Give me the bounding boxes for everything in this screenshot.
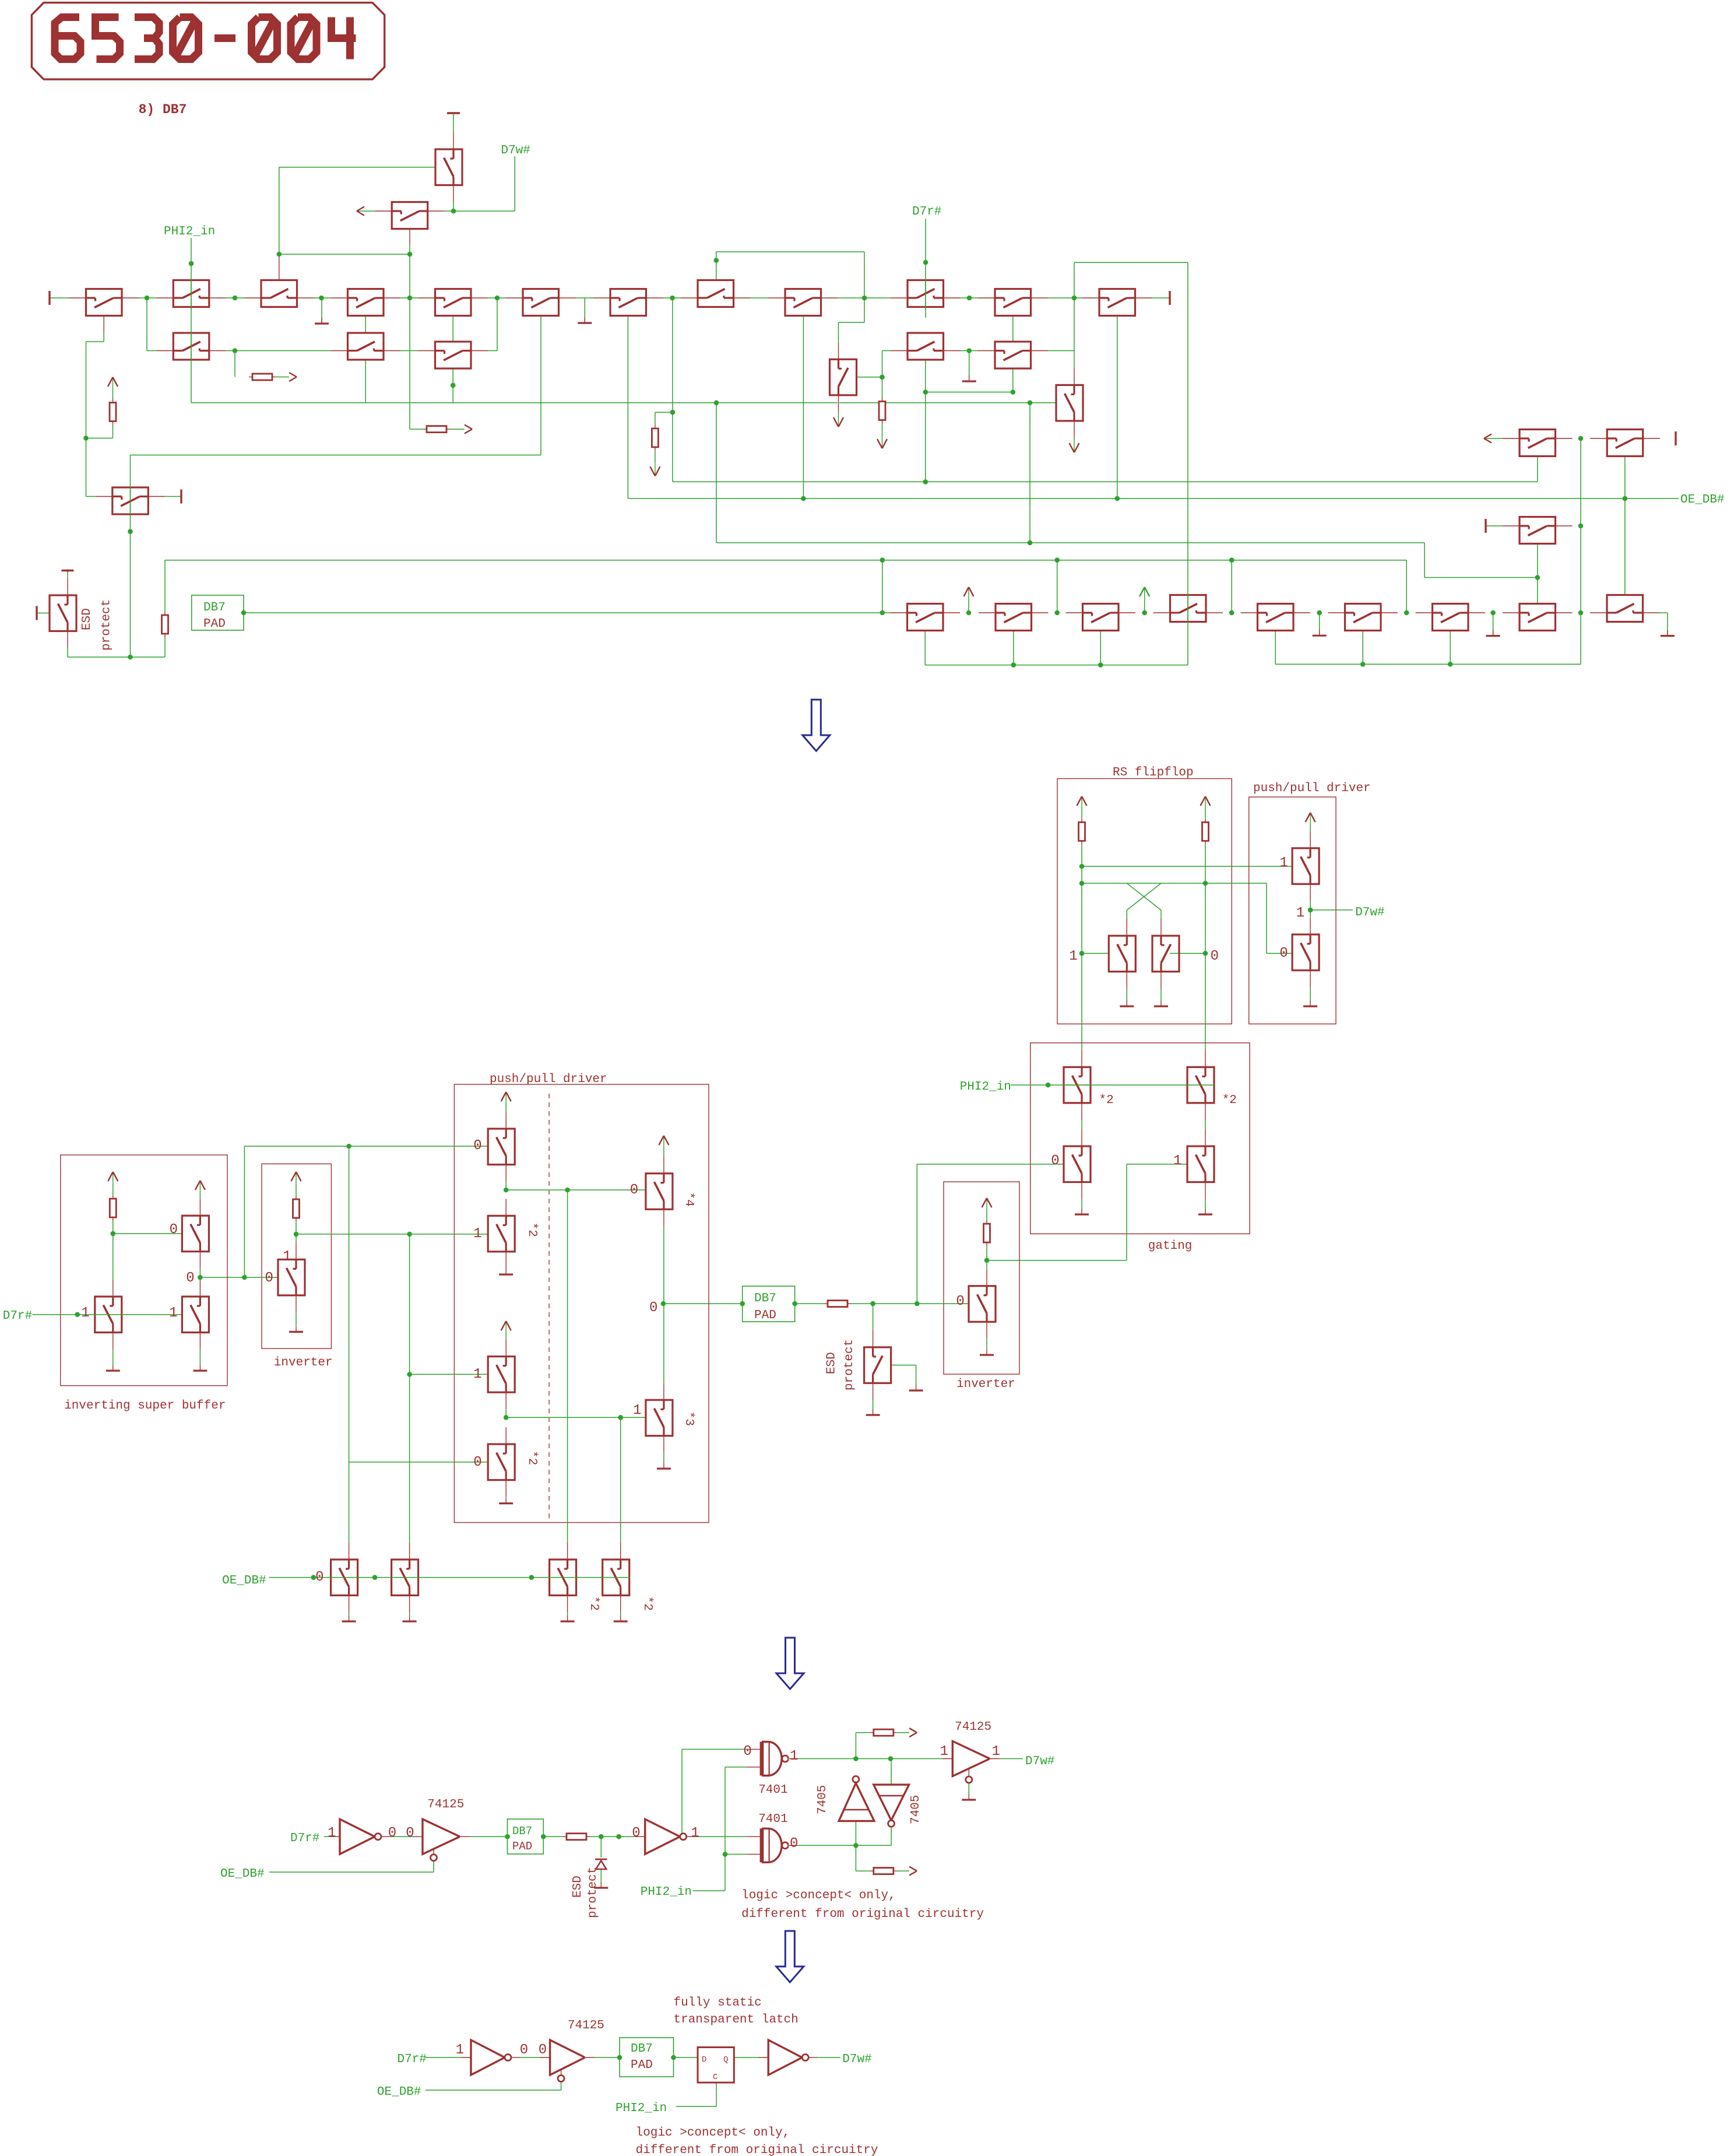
svg-text:74125: 74125	[955, 1720, 991, 1734]
svg-text:0: 0	[632, 1825, 640, 1841]
svg-text:transparent latch: transparent latch	[674, 2013, 799, 2027]
svg-text:D7w#: D7w#	[501, 144, 530, 157]
svg-text:D7r#: D7r#	[398, 2053, 427, 2066]
svg-text:1: 1	[81, 1305, 89, 1321]
svg-text:7401: 7401	[758, 1783, 787, 1797]
svg-text:0: 0	[388, 1825, 396, 1841]
svg-text:1: 1	[790, 1748, 798, 1764]
svg-text:0: 0	[1279, 946, 1288, 961]
svg-text:DB7: DB7	[754, 1292, 776, 1305]
svg-text:*2: *2	[641, 1596, 654, 1611]
svg-text:0: 0	[743, 1744, 751, 1760]
svg-text:inverter: inverter	[956, 1378, 1015, 1391]
svg-text:*2: *2	[587, 1596, 600, 1611]
svg-text:1: 1	[1069, 949, 1077, 964]
svg-text:OE_DB#: OE_DB#	[377, 2085, 421, 2099]
svg-text:push/pull driver: push/pull driver	[490, 1073, 607, 1086]
svg-text:PHI2_in: PHI2_in	[615, 2102, 667, 2115]
svg-text:0: 0	[1051, 1153, 1059, 1169]
svg-text:*2: *2	[525, 1451, 539, 1465]
svg-text:different from original circui: different from original circuitry	[741, 1908, 984, 1921]
svg-text:Q: Q	[723, 2055, 728, 2064]
svg-text:D7r#: D7r#	[912, 205, 941, 219]
svg-text:PAD: PAD	[512, 1840, 532, 1853]
svg-text:1: 1	[473, 1226, 481, 1242]
svg-text:1: 1	[1296, 905, 1304, 921]
svg-text:8) DB7: 8) DB7	[139, 102, 187, 117]
svg-text:C: C	[713, 2073, 717, 2082]
svg-text:PAD: PAD	[203, 617, 226, 631]
svg-text:0: 0	[956, 1294, 964, 1309]
svg-text:1: 1	[473, 1367, 481, 1382]
svg-text:*2: *2	[525, 1223, 539, 1237]
svg-text:PAD: PAD	[631, 2059, 653, 2072]
svg-text:0: 0	[520, 2042, 528, 2058]
svg-text:PHI2_in: PHI2_in	[164, 225, 215, 238]
svg-text:0: 0	[1211, 949, 1219, 964]
svg-text:7405: 7405	[909, 1795, 923, 1824]
svg-text:ESD: ESD	[571, 1876, 585, 1898]
svg-text:OE_DB#: OE_DB#	[1680, 493, 1725, 507]
svg-text:DB7: DB7	[512, 1825, 532, 1838]
svg-text:74125: 74125	[568, 2019, 604, 2032]
svg-text:0: 0	[473, 1455, 481, 1470]
svg-text:*2: *2	[1222, 1094, 1237, 1107]
svg-text:D7r#: D7r#	[3, 1309, 32, 1323]
svg-text:0: 0	[630, 1182, 638, 1198]
svg-text:0: 0	[186, 1270, 194, 1286]
svg-text:PAD: PAD	[754, 1309, 776, 1322]
svg-text:1: 1	[1173, 1153, 1181, 1169]
svg-text:0: 0	[473, 1138, 481, 1154]
svg-text:0: 0	[265, 1270, 273, 1286]
svg-text:DB7: DB7	[631, 2042, 653, 2056]
svg-text:1: 1	[328, 1825, 336, 1841]
svg-text:inverter: inverter	[274, 1356, 333, 1370]
svg-text:D7w#: D7w#	[1025, 1755, 1054, 1768]
svg-text:*3: *3	[682, 1411, 695, 1426]
svg-text:0: 0	[315, 1569, 323, 1585]
svg-text:1: 1	[283, 1249, 291, 1265]
svg-text:inverting super buffer: inverting super buffer	[64, 1399, 226, 1413]
svg-text:protect: protect	[843, 1339, 856, 1390]
svg-text:0: 0	[406, 1825, 414, 1841]
svg-text:protect: protect	[586, 1867, 600, 1918]
svg-text:ESD: ESD	[825, 1352, 839, 1374]
svg-text:7401: 7401	[758, 1813, 787, 1826]
svg-text:DB7: DB7	[203, 601, 226, 615]
svg-text:gating: gating	[1148, 1239, 1193, 1253]
svg-text:0: 0	[649, 1300, 657, 1316]
svg-text:0: 0	[790, 1836, 798, 1852]
svg-text:*4: *4	[682, 1192, 695, 1207]
svg-text:PHI2_in: PHI2_in	[641, 1885, 692, 1899]
svg-text:different from original circui: different from original circuitry	[636, 2144, 878, 2156]
svg-text:7405: 7405	[816, 1785, 829, 1814]
svg-text:1: 1	[169, 1305, 177, 1321]
svg-text:logic >concept< only,: logic >concept< only,	[741, 1889, 896, 1902]
svg-text:1: 1	[992, 1744, 1000, 1760]
svg-text:0: 0	[539, 2042, 547, 2058]
svg-text:RS flipflop: RS flipflop	[1113, 766, 1194, 779]
svg-text:1: 1	[456, 2042, 464, 2058]
svg-text:D7w#: D7w#	[1355, 906, 1384, 919]
svg-text:OE_DB#: OE_DB#	[222, 1574, 266, 1588]
svg-text:protect: protect	[100, 599, 114, 651]
svg-text:fully static: fully static	[674, 1996, 762, 2010]
svg-text:0: 0	[170, 1222, 178, 1238]
svg-text:logic >concept< only,: logic >concept< only,	[636, 2126, 790, 2140]
svg-text:ESD: ESD	[80, 608, 94, 630]
svg-text:74125: 74125	[427, 1798, 464, 1811]
svg-text:1: 1	[691, 1825, 699, 1841]
svg-text:push/pull driver: push/pull driver	[1253, 782, 1371, 795]
svg-text:1: 1	[1279, 855, 1288, 871]
svg-text:1: 1	[940, 1744, 948, 1760]
svg-text:D: D	[702, 2055, 706, 2064]
svg-text:OE_DB#: OE_DB#	[220, 1867, 265, 1881]
svg-text:*2: *2	[1099, 1094, 1114, 1107]
svg-text:D7r#: D7r#	[290, 1832, 319, 1845]
svg-text:D7w#: D7w#	[842, 2053, 871, 2066]
svg-text:1: 1	[633, 1403, 641, 1418]
svg-text:PHI2_in: PHI2_in	[960, 1080, 1011, 1094]
